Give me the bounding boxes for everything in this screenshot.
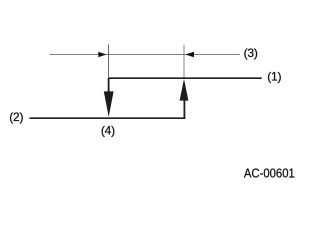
up arrow shaft [183, 100, 185, 118]
signal line (1) [108, 77, 262, 79]
down arrowhead (4) [104, 91, 114, 117]
signal line (2) [29, 117, 185, 119]
svg-text:(2): (2) [9, 110, 23, 124]
arrowhead pointing left [185, 52, 194, 58]
svg-text:(3): (3) [244, 46, 258, 60]
extension tick right [183, 45, 185, 78]
svg-text:AC-00601: AC-00601 [244, 166, 295, 181]
svg-text:(1): (1) [267, 69, 281, 83]
up arrowhead [180, 79, 189, 101]
dimension line (3) [50, 54, 240, 56]
svg-text:(4): (4) [101, 123, 115, 137]
extension tick left [108, 44, 110, 77]
down arrow shaft [108, 78, 110, 93]
arrowhead pointing right [98, 52, 106, 58]
